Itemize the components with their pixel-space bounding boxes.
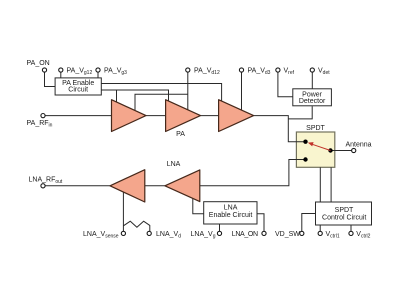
node SPDT port1: [303, 140, 307, 144]
svg-text:VD_SW: VD_SW: [275, 231, 300, 238]
wire LNA stage2 to stage1: [145, 185, 165, 187]
box SPDT Control Circuit: [316, 202, 372, 225]
node SPDT common: [328, 148, 332, 152]
svg-text:LNA: LNA: [224, 205, 238, 212]
amplifier LNA stage2: [165, 170, 200, 202]
box LNA Enable Circuit: [204, 202, 257, 224]
wire LNA sense drop: [122, 192, 124, 232]
svg-text:Detector: Detector: [299, 98, 326, 105]
wire LNA_Vg drop: [219, 225, 221, 232]
node SPDT port2: [303, 157, 307, 161]
wire Vctrl1 drop: [319, 226, 321, 232]
terminal LNA_Vsense: [121, 231, 125, 235]
amplifier PA stage1: [112, 100, 147, 132]
svg-text:SPDT: SPDT: [335, 207, 354, 214]
svg-text:Control Circuit: Control Circuit: [322, 214, 366, 221]
svg-text:SPDT: SPDT: [306, 125, 325, 132]
wire PA_Vd12 drop to stage2: [187, 70, 189, 110]
wire PA_Vd12 branch to stage1: [135, 94, 188, 110]
wire PA stage2 to stage3: [201, 115, 219, 117]
wire PA_ON to PA Enable Circuit: [45, 70, 56, 87]
wire LNA Enable Circuit to LNA stage2: [193, 198, 204, 214]
wire Vref to Power Detector: [278, 70, 293, 97]
amplifier LNA stage1: [110, 170, 145, 202]
svg-text:LNA_ON: LNA_ON: [232, 231, 258, 238]
terminal Antenna: [352, 148, 356, 152]
svg-text:LNA: LNA: [167, 161, 181, 168]
terminal LNA_Vg: [217, 231, 221, 235]
wire SPDT port2 to LNA input: [200, 160, 306, 186]
wire SPDT to control circuit line1: [319, 167, 321, 201]
switch arm red arrow: [308, 142, 331, 150]
svg-text:PA_ON: PA_ON: [27, 60, 50, 67]
svg-text:Enable Circuit: Enable Circuit: [209, 212, 253, 219]
wire LNA_ON: [258, 214, 265, 232]
wire VD_SW to SPDT Control Circuit: [302, 214, 316, 232]
terminal Vctrl1: [318, 231, 322, 235]
terminal PA_Vd12: [186, 68, 190, 72]
terminal Vdet: [310, 68, 314, 72]
wire SPDT common to Antenna: [331, 150, 354, 152]
terminal PA_RFin: [41, 114, 45, 118]
terminal LNA_Vd: [147, 231, 151, 235]
wire PA_Vg3 to PA Enable Circuit: [97, 70, 99, 78]
wire PA_RFin input: [43, 115, 112, 117]
wire SPDT to control circuit line2: [330, 167, 332, 201]
wire Vctrl2 drop: [350, 226, 352, 232]
wire Power Detector tap to PA output: [288, 106, 312, 119]
terminal Vctrl2: [349, 231, 353, 235]
wire bias line B (stage1-2 gate): [101, 90, 168, 101]
terminal PA_Vd3: [239, 68, 243, 72]
wire bias line A (stage3 gate): [101, 84, 221, 102]
svg-text:Antenna: Antenna: [345, 141, 371, 148]
box PA Enable Circuit: [55, 78, 101, 95]
terminal Vref: [276, 68, 280, 72]
terminal LNA_RFout: [41, 184, 45, 188]
wire PA_Vg12 to PA Enable Circuit: [60, 70, 62, 78]
wire PA_Vd3 drop to stage3: [241, 70, 243, 110]
terminal PA_ON: [42, 68, 46, 72]
wire PA output to SPDT port1: [254, 116, 306, 142]
wire PA stage1 to stage2: [146, 115, 166, 117]
amplifier PA stage2: [166, 100, 201, 132]
wire stage1 gate drop: [116, 90, 118, 102]
terminal PA_Vg12: [59, 68, 63, 72]
amplifier PA stage3: [219, 100, 254, 132]
svg-text:Circuit: Circuit: [68, 87, 88, 94]
terminal LNA_ON: [262, 231, 266, 235]
wire LNA output to LNA_RFout: [43, 185, 110, 187]
terminal VD_SW: [300, 231, 304, 235]
box Power Detector: [293, 89, 332, 106]
terminal PA_Vg3: [96, 68, 100, 72]
wire Vdet to Power Detector: [311, 70, 313, 89]
switch SPDT box: [296, 132, 334, 167]
resistor between LNA_Vsense and LNA_Vd: [123, 221, 149, 231]
svg-text:PA: PA: [176, 131, 185, 138]
